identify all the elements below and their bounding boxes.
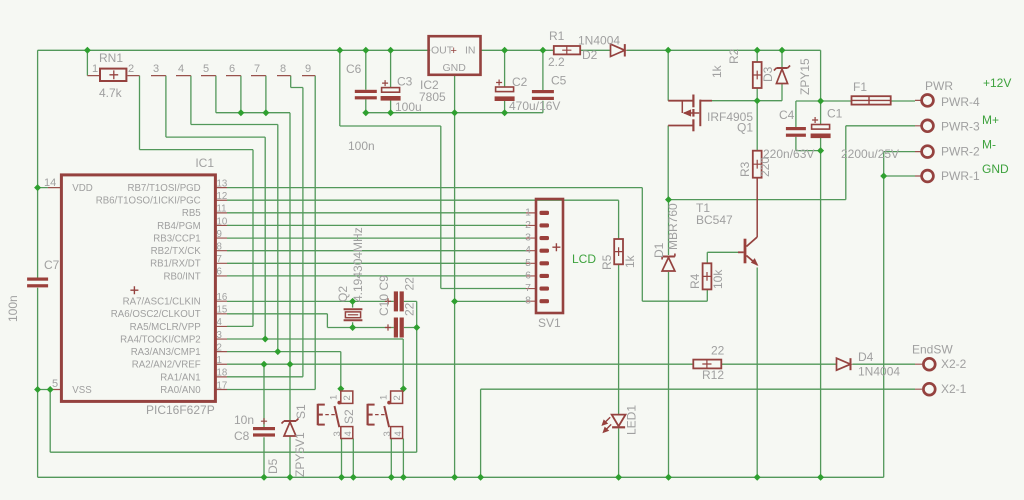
svg-text:10: 10 — [217, 216, 228, 227]
svg-text:12: 12 — [217, 191, 228, 202]
svg-text:14: 14 — [44, 177, 56, 189]
svg-text:470u/16V: 470u/16V — [509, 99, 560, 113]
svg-text:LCD: LCD — [572, 252, 596, 266]
svg-text:8: 8 — [525, 295, 531, 307]
svg-text:1: 1 — [217, 355, 222, 366]
svg-text:IN: IN — [465, 45, 476, 57]
svg-text:RA3/AN3/CMP1: RA3/AN3/CMP1 — [131, 347, 201, 358]
svg-text:4: 4 — [343, 431, 354, 436]
svg-text:D3: D3 — [761, 66, 775, 82]
svg-text:RB7/T1OSI/PGD: RB7/T1OSI/PGD — [127, 183, 200, 194]
svg-text:C9: C9 — [377, 275, 391, 291]
svg-text:4: 4 — [217, 317, 223, 328]
svg-text:7805: 7805 — [419, 90, 446, 104]
svg-text:C1: C1 — [827, 107, 843, 121]
svg-text:22: 22 — [403, 277, 417, 291]
svg-text:22: 22 — [403, 302, 417, 316]
svg-text:M+: M+ — [982, 113, 999, 127]
svg-text:C5: C5 — [551, 74, 567, 88]
svg-text:1: 1 — [525, 206, 531, 218]
svg-text:Q1: Q1 — [737, 121, 753, 135]
svg-text:RA4/TOCKI/CMP2: RA4/TOCKI/CMP2 — [120, 334, 201, 345]
svg-text:GND: GND — [443, 62, 467, 74]
svg-text:C3: C3 — [397, 75, 413, 89]
svg-text:5: 5 — [525, 257, 531, 269]
svg-text:9: 9 — [217, 229, 222, 240]
svg-text:220n/63V: 220n/63V — [763, 147, 814, 161]
svg-text:22: 22 — [711, 344, 725, 358]
svg-text:EndSW: EndSW — [912, 343, 953, 357]
svg-text:PWR-4: PWR-4 — [941, 95, 980, 109]
svg-text:15: 15 — [217, 305, 228, 316]
svg-text:RA7/ASC1/CLKIN: RA7/ASC1/CLKIN — [123, 297, 201, 308]
svg-text:IC1: IC1 — [195, 156, 214, 170]
svg-text:D2: D2 — [582, 48, 598, 62]
svg-text:RA1/AN1: RA1/AN1 — [160, 372, 200, 383]
svg-text:F1: F1 — [853, 80, 867, 94]
svg-text:C6: C6 — [346, 62, 362, 76]
svg-text:C8: C8 — [234, 429, 250, 443]
svg-text:100n: 100n — [348, 139, 375, 153]
svg-text:1N4004: 1N4004 — [858, 365, 900, 379]
svg-text:2200u/25V: 2200u/25V — [841, 147, 899, 161]
svg-text:100n: 100n — [6, 295, 20, 322]
svg-text:X2-1: X2-1 — [941, 382, 967, 396]
svg-text:10n: 10n — [234, 413, 254, 427]
svg-text:R3: R3 — [738, 161, 752, 177]
svg-text:PWR-3: PWR-3 — [941, 120, 980, 134]
svg-text:RB3/CCP1: RB3/CCP1 — [153, 233, 200, 244]
svg-text:100u: 100u — [395, 100, 422, 114]
svg-text:GND: GND — [982, 162, 1009, 176]
svg-text:RB5: RB5 — [182, 208, 201, 219]
svg-text:16: 16 — [217, 292, 228, 303]
svg-text:7: 7 — [254, 63, 260, 75]
svg-text:7: 7 — [217, 254, 222, 265]
svg-text:PWR: PWR — [925, 79, 953, 93]
svg-text:3: 3 — [153, 63, 159, 75]
svg-text:9: 9 — [305, 63, 311, 75]
svg-text:11: 11 — [217, 204, 227, 215]
svg-text:S2: S2 — [342, 409, 356, 424]
svg-text:RB2/TX/CK: RB2/TX/CK — [151, 246, 202, 257]
svg-text:D5: D5 — [266, 458, 280, 474]
svg-text:6: 6 — [217, 267, 222, 278]
svg-text:PWR-2: PWR-2 — [941, 145, 980, 159]
svg-text:4: 4 — [393, 431, 404, 436]
svg-text:+: + — [451, 45, 457, 57]
svg-text:X2-2: X2-2 — [941, 357, 967, 371]
svg-text:2.2: 2.2 — [548, 55, 565, 69]
svg-text:2: 2 — [525, 219, 531, 231]
svg-text:7: 7 — [525, 282, 531, 294]
svg-text:MBR760: MBR760 — [666, 203, 680, 250]
svg-text:RA6/OSC2/CLKOUT: RA6/OSC2/CLKOUT — [111, 309, 201, 320]
svg-text:3: 3 — [332, 431, 343, 436]
svg-text:RB1/RX/DT: RB1/RX/DT — [150, 259, 201, 270]
svg-text:4.7k: 4.7k — [99, 86, 123, 100]
svg-text:M-: M- — [982, 138, 996, 152]
svg-text:R5: R5 — [600, 254, 614, 270]
svg-text:2: 2 — [392, 395, 403, 400]
svg-text:RB6/T1OSO/1ICKI/PGC: RB6/T1OSO/1ICKI/PGC — [96, 196, 201, 207]
svg-text:3: 3 — [525, 232, 531, 244]
svg-text:RA2/AN2/VREF: RA2/AN2/VREF — [132, 360, 201, 371]
svg-text:13: 13 — [217, 178, 228, 189]
svg-text:1k: 1k — [623, 254, 637, 268]
svg-text:R12: R12 — [702, 368, 724, 382]
svg-text:3: 3 — [382, 431, 393, 436]
svg-text:C2: C2 — [512, 75, 528, 89]
svg-text:ZPY5V1: ZPY5V1 — [293, 432, 307, 477]
svg-text:R4: R4 — [688, 273, 702, 289]
svg-text:RB4/PGM: RB4/PGM — [157, 221, 201, 232]
svg-text:4: 4 — [525, 244, 531, 256]
svg-text:2: 2 — [128, 63, 134, 75]
svg-text:BC547: BC547 — [696, 213, 733, 227]
svg-text:SV1: SV1 — [538, 316, 561, 330]
svg-text:RA5/MCLR/VPP: RA5/MCLR/VPP — [130, 322, 201, 333]
svg-text:2: 2 — [342, 395, 353, 400]
svg-text:C10: C10 — [377, 294, 391, 316]
svg-text:C7: C7 — [44, 258, 60, 272]
svg-text:8: 8 — [280, 63, 286, 75]
svg-text:6: 6 — [525, 269, 531, 281]
svg-text:1: 1 — [378, 395, 389, 400]
svg-text:4: 4 — [178, 63, 184, 75]
svg-text:5: 5 — [203, 63, 209, 75]
svg-text:VDD: VDD — [72, 183, 92, 194]
svg-text:5: 5 — [52, 378, 58, 390]
svg-text:17: 17 — [217, 380, 228, 391]
svg-text:18: 18 — [217, 368, 228, 379]
svg-text:D1: D1 — [652, 242, 666, 258]
svg-text:+12V: +12V — [983, 76, 1011, 90]
svg-text:1: 1 — [92, 63, 98, 75]
svg-text:2: 2 — [217, 342, 222, 353]
svg-text:RB0/INT: RB0/INT — [164, 271, 201, 282]
svg-text:LED1: LED1 — [625, 405, 639, 435]
svg-text:PWR-1: PWR-1 — [941, 169, 980, 183]
svg-text:D4: D4 — [858, 350, 874, 364]
svg-text:Q2: Q2 — [336, 286, 350, 302]
svg-text:C4: C4 — [779, 108, 795, 122]
svg-text:6: 6 — [229, 63, 235, 75]
svg-text:1k: 1k — [710, 64, 724, 78]
svg-text:4.194304MHz: 4.194304MHz — [351, 227, 365, 302]
svg-text:10k: 10k — [711, 269, 725, 289]
svg-text:VSS: VSS — [72, 385, 92, 396]
svg-text:S1: S1 — [294, 404, 308, 419]
svg-text:R1: R1 — [549, 29, 565, 43]
svg-text:R2: R2 — [727, 48, 741, 64]
svg-text:3: 3 — [217, 330, 222, 341]
svg-text:ZPY15: ZPY15 — [798, 58, 812, 95]
svg-text:1N4004: 1N4004 — [578, 34, 620, 48]
svg-text:RN1: RN1 — [99, 51, 123, 65]
svg-text:1: 1 — [329, 395, 340, 400]
svg-text:RA0/AN0: RA0/AN0 — [160, 385, 201, 396]
svg-text:8: 8 — [217, 242, 222, 253]
svg-text:PIC16F627P: PIC16F627P — [146, 403, 215, 417]
